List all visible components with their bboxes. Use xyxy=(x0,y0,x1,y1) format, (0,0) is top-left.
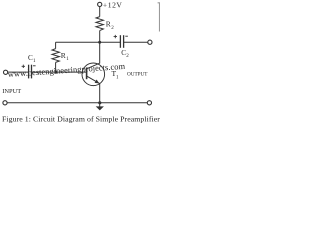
svg-text:INPUT: INPUT xyxy=(2,88,21,95)
svg-text:+12V: +12V xyxy=(103,1,123,10)
svg-text:Figure 1: Circuit Diagram of S: Figure 1: Circuit Diagram of Simple Prea… xyxy=(2,114,160,123)
svg-text:OUTPUT: OUTPUT xyxy=(127,72,148,78)
svg-text:R: R xyxy=(106,19,111,28)
svg-text:R: R xyxy=(61,51,66,60)
